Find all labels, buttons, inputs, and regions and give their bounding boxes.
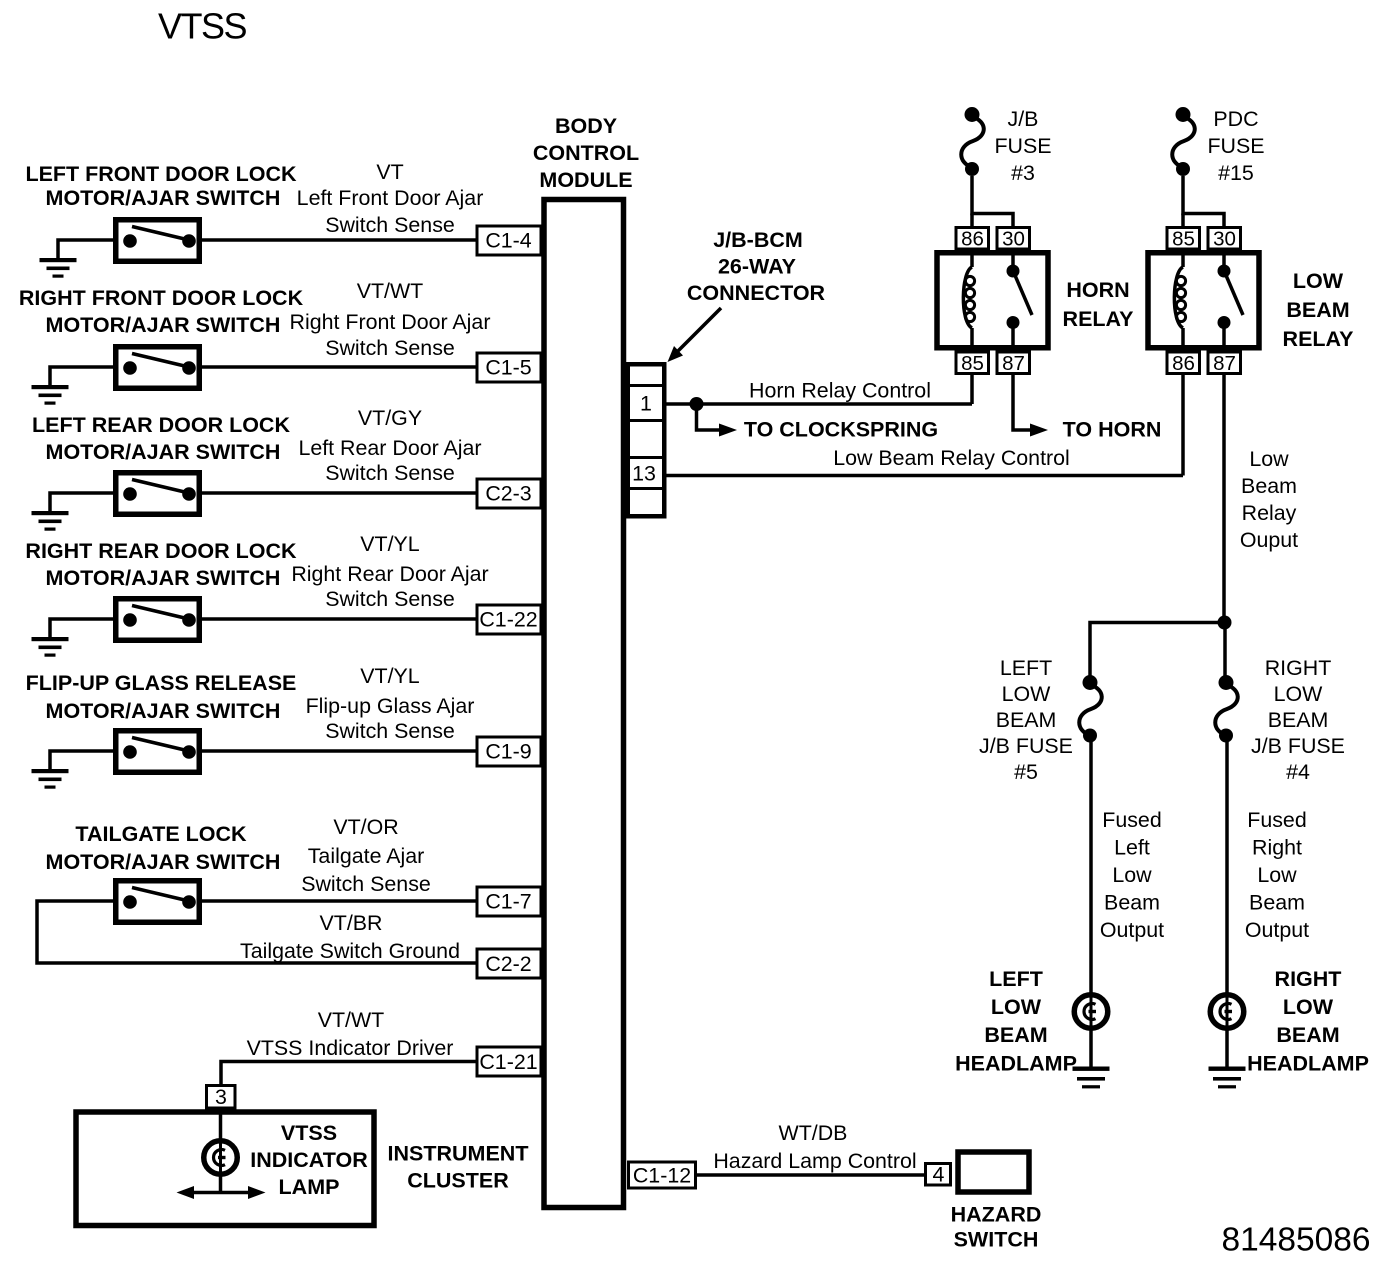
pin C1-21 <box>477 1047 541 1076</box>
wire lamp to arrow <box>219 1174 223 1193</box>
switch flip-up glass release motor/ajar switch label <box>26 671 297 723</box>
svg-text:Left Rear Door Ajar: Left Rear Door Ajar <box>298 436 481 460</box>
svg-text:BEAM: BEAM <box>984 1023 1047 1047</box>
relay LOW BEAM RELAY pin 85 <box>1167 227 1200 250</box>
fuse J/B FUSE #3 <box>961 107 984 176</box>
svg-text:85: 85 <box>961 352 984 375</box>
svg-text:Switch Sense: Switch Sense <box>325 719 455 743</box>
fuse RIGHT LOW BEAM J/B FUSE #4 <box>1215 675 1238 743</box>
switch S5 flip-up glass release motor/ajar switch <box>116 731 200 773</box>
op-amp U1 body control module <box>544 200 624 1208</box>
label circuit name <box>297 186 484 237</box>
svg-text:30: 30 <box>1002 227 1025 250</box>
wire switch sense to BCM <box>200 617 476 621</box>
svg-text:C1-22: C1-22 <box>479 608 537 632</box>
svg-text:Low Beam Relay Control: Low Beam Relay Control <box>833 446 1070 470</box>
label RIGHT LOW BEAM HEADLAMP <box>1247 967 1369 1076</box>
svg-text:Switch Sense: Switch Sense <box>325 587 455 611</box>
relay LOW BEAM RELAY body <box>1148 253 1259 348</box>
svg-text:VT/YL: VT/YL <box>360 532 420 556</box>
svg-text:SWITCH: SWITCH <box>954 1228 1039 1252</box>
svg-text:FUSE: FUSE <box>1207 134 1264 158</box>
svg-text:VT/YL: VT/YL <box>360 664 420 688</box>
lamp VTSS INDICATOR <box>204 1141 238 1175</box>
switch left front door lock motor/ajar switch label <box>25 162 297 210</box>
svg-text:BEAM: BEAM <box>1268 708 1329 732</box>
svg-text:LEFT FRONT DOOR LOCK: LEFT FRONT DOOR LOCK <box>25 162 297 186</box>
pin C2-2 <box>477 949 541 978</box>
svg-text:VT/WT: VT/WT <box>357 279 424 303</box>
svg-text:C1-12: C1-12 <box>633 1164 691 1188</box>
label PDC FUSE #15 <box>1207 107 1264 185</box>
svg-text:LEFT: LEFT <box>989 967 1043 991</box>
relay HORN RELAY pin 87 <box>997 352 1030 375</box>
wire fused left low beam output <box>1089 742 1093 1068</box>
svg-text:Right: Right <box>1252 836 1302 860</box>
svg-text:Right Rear Door Ajar: Right Rear Door Ajar <box>291 562 488 586</box>
svg-text:LOW: LOW <box>1002 682 1052 706</box>
svg-text:Switch Sense: Switch Sense <box>301 872 431 896</box>
svg-text:C1-21: C1-21 <box>479 1050 537 1074</box>
fuse LEFT LOW BEAM J/B FUSE #5 <box>1079 675 1102 743</box>
label LEFT LOW BEAM J/B FUSE #5 <box>979 656 1073 784</box>
svg-text:Beam: Beam <box>1241 474 1297 498</box>
svg-text:85: 85 <box>1172 227 1195 250</box>
relay LOW BEAM RELAY pin 87 <box>1208 352 1241 375</box>
ground <box>32 511 69 531</box>
pin 4 hazard switch <box>926 1163 951 1187</box>
node J/B-BCM 26-WAY CONNECTOR label <box>687 228 826 305</box>
svg-text:HORN: HORN <box>1066 278 1129 302</box>
svg-text:LEFT REAR DOOR LOCK: LEFT REAR DOOR LOCK <box>32 413 290 437</box>
pin 3 instrument cluster <box>207 1085 236 1109</box>
label INSTRUMENT CLUSTER <box>388 1142 529 1193</box>
svg-text:RIGHT: RIGHT <box>1265 656 1332 680</box>
svg-text:86: 86 <box>1172 352 1195 375</box>
svg-text:13: 13 <box>632 462 656 486</box>
label RIGHT LOW BEAM J/B FUSE #4 <box>1251 656 1345 784</box>
svg-text:LOW: LOW <box>1274 682 1324 706</box>
svg-text:Output: Output <box>1100 918 1164 942</box>
wire switch sense to BCM <box>200 749 476 753</box>
switch S4 right rear door lock motor/ajar switch <box>116 599 200 641</box>
switch right front door lock motor/ajar switch label <box>19 286 304 337</box>
pin C2-3 <box>477 479 541 508</box>
wire switch to ground <box>50 751 114 770</box>
svg-text:RIGHT FRONT DOOR LOCK: RIGHT FRONT DOOR LOCK <box>19 286 304 310</box>
node junction low beam split <box>1218 616 1232 630</box>
svg-text:MOTOR/AJAR SWITCH: MOTOR/AJAR SWITCH <box>46 313 281 337</box>
svg-text:J/B: J/B <box>1008 107 1039 131</box>
relay HORN RELAY pin 30 <box>997 227 1030 250</box>
wire connector leader arrow <box>668 308 722 362</box>
ground <box>32 637 69 657</box>
label circuit name <box>290 310 491 360</box>
switch left rear door lock motor/ajar switch label <box>32 413 290 464</box>
ground <box>32 385 69 405</box>
wire low beam relay output <box>1222 374 1226 623</box>
hazard switch box <box>958 1152 1029 1192</box>
svg-text:Low: Low <box>1249 447 1289 471</box>
svg-text:Right Front Door Ajar: Right Front Door Ajar <box>290 310 491 334</box>
relay HORN RELAY body <box>937 253 1048 348</box>
svg-text:J/B FUSE: J/B FUSE <box>1251 734 1345 758</box>
svg-text:LOW: LOW <box>1293 269 1344 293</box>
svg-text:WT/DB: WT/DB <box>779 1121 848 1145</box>
svg-text:26-WAY: 26-WAY <box>718 255 796 279</box>
relay LOW BEAM RELAY pin 30 <box>1208 227 1241 250</box>
svg-text:VTSS: VTSS <box>281 1121 337 1145</box>
svg-text:VT/WT: VT/WT <box>318 1008 385 1032</box>
svg-text:Ouput: Ouput <box>1240 528 1298 552</box>
svg-text:Hazard Lamp Control: Hazard Lamp Control <box>713 1149 916 1173</box>
switch tailgate lock motor/ajar switch label <box>46 822 281 874</box>
switch S6 tailgate lock motor/ajar switch <box>116 881 200 923</box>
wire tailgate switch ground loop to C2-2 <box>37 901 476 963</box>
svg-text:LEFT: LEFT <box>1000 656 1052 680</box>
wire fused right low beam output <box>1225 742 1229 1068</box>
svg-text:VT/GY: VT/GY <box>358 406 422 430</box>
svg-text:CONTROL: CONTROL <box>533 141 639 165</box>
svg-text:VT/BR: VT/BR <box>320 911 383 935</box>
svg-text:BEAM: BEAM <box>1276 1023 1339 1047</box>
svg-text:MOTOR/AJAR SWITCH: MOTOR/AJAR SWITCH <box>46 850 281 874</box>
svg-text:4: 4 <box>933 1163 945 1187</box>
svg-text:87: 87 <box>1002 352 1025 375</box>
switch S2 right front door lock motor/ajar switch <box>116 347 200 389</box>
svg-text:C1-5: C1-5 <box>485 356 531 380</box>
relay HORN RELAY switch <box>1007 249 1033 352</box>
pin C1-12 <box>629 1162 696 1188</box>
relay LOW BEAM RELAY pin 86 <box>1167 352 1200 375</box>
wire fuse feed to relay HORN RELAY <box>972 176 1013 228</box>
ground <box>1073 1067 1110 1089</box>
svg-text:PDC: PDC <box>1213 107 1258 131</box>
svg-text:MOTOR/AJAR SWITCH: MOTOR/AJAR SWITCH <box>46 566 281 590</box>
pin C1-22 <box>477 605 541 634</box>
svg-text:1: 1 <box>640 392 652 416</box>
wire horn relay pin 85 drop <box>970 373 974 404</box>
wire fuse feed to relay LOW BEAM RELAY <box>1183 176 1224 228</box>
wire split to left fuse <box>1090 623 1225 678</box>
svg-text:C2-3: C2-3 <box>485 482 531 506</box>
switch right rear door lock motor/ajar switch label <box>25 539 297 590</box>
label Fused Left Low Beam Output <box>1100 808 1164 942</box>
svg-text:Output: Output <box>1245 918 1309 942</box>
svg-text:Switch Sense: Switch Sense <box>325 461 455 485</box>
wire pin 3 to lamp <box>219 1108 223 1141</box>
svg-text:MOTOR/AJAR SWITCH: MOTOR/AJAR SWITCH <box>46 440 281 464</box>
pin C1-9 <box>477 737 541 766</box>
svg-text:81485086: 81485086 <box>1221 1222 1370 1259</box>
wire to clockspring arrow <box>697 404 738 437</box>
svg-text:Flip-up Glass Ajar: Flip-up Glass Ajar <box>306 694 475 718</box>
svg-text:C1-9: C1-9 <box>485 740 531 764</box>
svg-text:C1-7: C1-7 <box>485 890 531 914</box>
svg-text:Beam: Beam <box>1104 891 1160 915</box>
svg-text:RELAY: RELAY <box>1283 327 1354 351</box>
svg-text:Low: Low <box>1112 863 1152 887</box>
svg-text:FUSE: FUSE <box>994 134 1051 158</box>
wire split to right fuse <box>1223 623 1227 678</box>
svg-text:INDICATOR: INDICATOR <box>250 1148 368 1172</box>
wire horn relay control <box>667 402 973 406</box>
svg-text:30: 30 <box>1213 227 1236 250</box>
label circuit name <box>298 436 481 485</box>
svg-text:TO CLOCKSPRING: TO CLOCKSPRING <box>744 418 938 442</box>
label Low Beam Relay Ouput <box>1240 447 1298 552</box>
svg-text:BEAM: BEAM <box>1286 298 1349 322</box>
wire switch sense to BCM <box>200 365 476 369</box>
wire switch to ground <box>50 619 114 638</box>
svg-text:CLUSTER: CLUSTER <box>407 1169 509 1193</box>
wire to horn arrow <box>1013 374 1048 437</box>
svg-text:HEADLAMP: HEADLAMP <box>1247 1052 1369 1076</box>
svg-text:C2-2: C2-2 <box>485 952 531 976</box>
wire flashing double arrow <box>177 1186 266 1199</box>
label LOW BEAM RELAY <box>1283 269 1354 351</box>
svg-text:MODULE: MODULE <box>539 168 632 192</box>
svg-text:VTSS Indicator Driver: VTSS Indicator Driver <box>247 1036 454 1060</box>
label J/B FUSE #3 <box>994 107 1051 185</box>
svg-text:Fused: Fused <box>1247 808 1306 832</box>
wire switch sense to BCM <box>200 899 476 903</box>
svg-text:Low: Low <box>1257 863 1297 887</box>
pin C1-5 <box>477 353 541 382</box>
svg-text:C1-4: C1-4 <box>485 229 531 253</box>
wire low beam relay pin 86 drop <box>1181 373 1185 476</box>
relay LOW BEAM RELAY coil <box>1174 250 1185 352</box>
lamp RIGHT LOW BEAM HEADLAMP <box>1210 995 1244 1029</box>
svg-text:Relay: Relay <box>1242 501 1297 525</box>
ground <box>1209 1067 1246 1089</box>
svg-text:#3: #3 <box>1011 161 1035 185</box>
lamp LEFT LOW BEAM HEADLAMP <box>1074 995 1108 1029</box>
svg-text:LOW: LOW <box>1283 995 1334 1019</box>
svg-text:Switch Sense: Switch Sense <box>325 213 455 237</box>
relay HORN RELAY pin 86 <box>956 227 989 250</box>
svg-text:J/B FUSE: J/B FUSE <box>979 734 1073 758</box>
svg-text:Left: Left <box>1114 836 1150 860</box>
svg-text:MOTOR/AJAR SWITCH: MOTOR/AJAR SWITCH <box>46 186 281 210</box>
svg-text:TAILGATE LOCK: TAILGATE LOCK <box>75 822 247 846</box>
svg-text:J/B-BCM: J/B-BCM <box>713 228 803 252</box>
svg-text:FLIP-UP GLASS RELEASE: FLIP-UP GLASS RELEASE <box>26 671 297 695</box>
switch S1 left front door lock motor/ajar switch <box>116 220 200 262</box>
node junction <box>690 397 704 411</box>
wire hazard lamp control <box>696 1173 924 1177</box>
svg-text:BODY: BODY <box>555 114 617 138</box>
svg-text:TO HORN: TO HORN <box>1063 418 1162 442</box>
svg-text:HEADLAMP: HEADLAMP <box>955 1052 1077 1076</box>
svg-text:Left Front Door Ajar: Left Front Door Ajar <box>297 186 484 210</box>
switch S3 left rear door lock motor/ajar switch <box>116 473 200 515</box>
svg-text:Horn Relay Control: Horn Relay Control <box>749 379 931 403</box>
ground <box>32 769 69 789</box>
svg-text:VTSS: VTSS <box>158 6 247 47</box>
relay LOW BEAM RELAY switch <box>1218 249 1244 352</box>
svg-text:#4: #4 <box>1286 760 1310 784</box>
svg-text:LOW: LOW <box>991 995 1042 1019</box>
relay HORN RELAY coil <box>963 250 974 352</box>
svg-text:HAZARD: HAZARD <box>951 1203 1042 1227</box>
svg-text:87: 87 <box>1213 352 1236 375</box>
wire switch sense to BCM <box>200 491 476 495</box>
label circuit name <box>291 562 488 611</box>
svg-text:RELAY: RELAY <box>1063 307 1134 331</box>
label LEFT LOW BEAM HEADLAMP <box>955 967 1077 1076</box>
label VTSS INDICATOR LAMP <box>250 1121 368 1199</box>
svg-text:86: 86 <box>961 227 984 250</box>
relay HORN RELAY pin 85 <box>956 352 989 375</box>
wire switch to ground <box>58 240 114 259</box>
pin C1-4 <box>477 226 541 255</box>
svg-text:#15: #15 <box>1218 161 1254 185</box>
svg-text:CONNECTOR: CONNECTOR <box>687 281 826 305</box>
svg-text:Beam: Beam <box>1249 891 1305 915</box>
pin C1-7 <box>477 887 541 916</box>
wire low beam relay control <box>667 474 1184 478</box>
svg-text:Fused: Fused <box>1102 808 1161 832</box>
ground <box>40 258 77 278</box>
svg-text:VT/OR: VT/OR <box>333 815 398 839</box>
svg-text:BEAM: BEAM <box>996 708 1057 732</box>
svg-text:RIGHT: RIGHT <box>1275 967 1342 991</box>
svg-text:VT: VT <box>376 160 403 184</box>
wire switch to ground <box>50 367 114 386</box>
fuse PDC FUSE #15 <box>1172 107 1195 176</box>
label HORN RELAY <box>1063 278 1134 331</box>
svg-text:RIGHT REAR DOOR LOCK: RIGHT REAR DOOR LOCK <box>25 539 297 563</box>
svg-text:Tailgate Switch Ground: Tailgate Switch Ground <box>240 939 460 963</box>
label Fused Right Low Beam Output <box>1245 808 1309 942</box>
svg-text:MOTOR/AJAR SWITCH: MOTOR/AJAR SWITCH <box>46 699 281 723</box>
label circuit name <box>306 694 475 743</box>
instrument cluster box <box>76 1112 374 1226</box>
svg-text:LAMP: LAMP <box>279 1175 340 1199</box>
node BODY CONTROL MODULE label <box>533 114 639 192</box>
svg-text:INSTRUMENT: INSTRUMENT <box>388 1142 529 1166</box>
wire switch sense to BCM <box>200 238 476 242</box>
wire C1-21 to instrument cluster pin 3 <box>221 1062 477 1086</box>
svg-text:Tailgate Ajar: Tailgate Ajar <box>308 844 425 868</box>
svg-text:#5: #5 <box>1014 760 1038 784</box>
wire switch to ground <box>50 493 114 512</box>
svg-text:3: 3 <box>215 1085 227 1109</box>
label circuit name <box>301 844 431 896</box>
connector J/B-BCM 26-way <box>627 364 664 516</box>
svg-text:Switch Sense: Switch Sense <box>325 336 455 360</box>
label HAZARD SWITCH <box>951 1203 1042 1252</box>
